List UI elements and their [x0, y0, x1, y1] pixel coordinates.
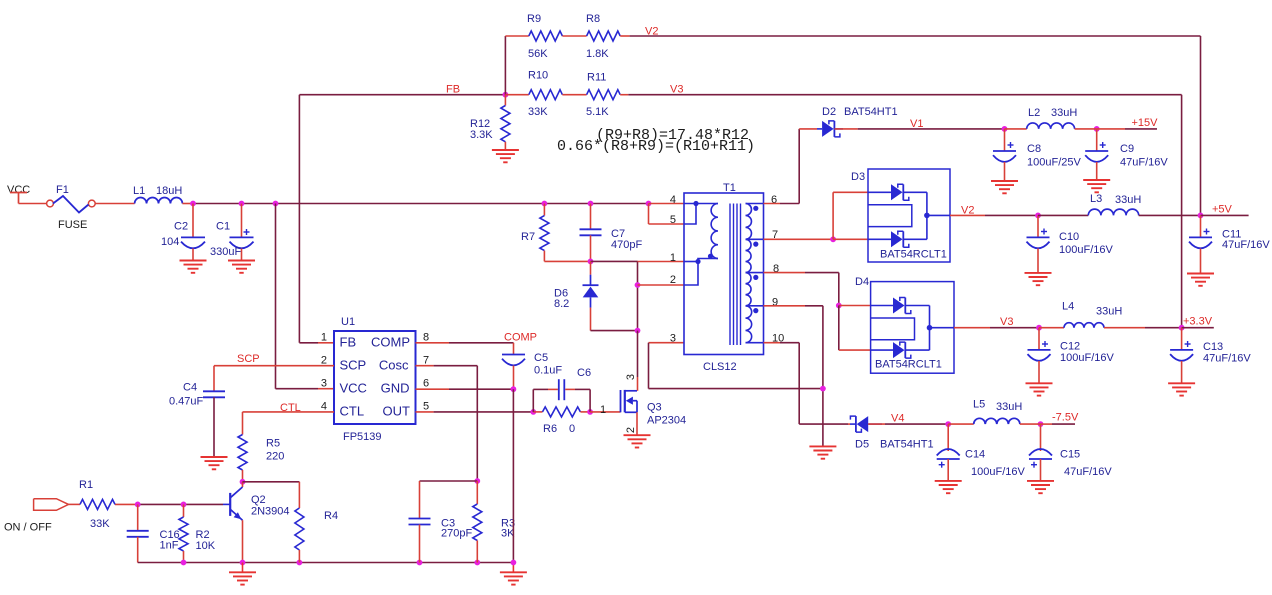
wire T1 pin10 to D5	[764, 342, 781, 344]
svg-text:2: 2	[321, 355, 327, 367]
wire R10 to R11	[562, 94, 586, 96]
wire C14 to L5	[948, 423, 974, 425]
svg-text:Q2: Q2	[251, 494, 266, 506]
svg-text:FUSE: FUSE	[58, 219, 87, 231]
svg-text:F1: F1	[56, 184, 69, 196]
svg-text:R10: R10	[528, 70, 548, 82]
wire D5 to V4 rail	[868, 423, 885, 425]
svg-text:18uH: 18uH	[156, 185, 182, 197]
ground C9	[1083, 179, 1110, 181]
svg-text:R8: R8	[586, 13, 600, 25]
capacitor C3 270pF	[419, 481, 421, 519]
svg-text:COMP: COMP	[371, 335, 410, 350]
svg-text:3.3K: 3.3K	[470, 129, 493, 141]
svg-text:6: 6	[423, 377, 429, 389]
ground R12	[492, 149, 519, 151]
svg-text:47uF/16V: 47uF/16V	[1222, 239, 1270, 251]
svg-text:Q3: Q3	[647, 402, 662, 414]
svg-text:33uH: 33uH	[1115, 194, 1141, 206]
svg-text:47uF/16V: 47uF/16V	[1203, 353, 1251, 365]
wire fuse to L1	[95, 203, 134, 205]
svg-text:270pF: 270pF	[441, 528, 472, 540]
junction C12	[1036, 325, 1042, 331]
svg-text:D5: D5	[855, 439, 869, 451]
svg-text:FB: FB	[340, 335, 357, 350]
ground C11	[1187, 273, 1214, 275]
svg-text:C4: C4	[183, 382, 197, 394]
svg-text:47uF/16V: 47uF/16V	[1064, 466, 1112, 478]
junction C2	[190, 201, 196, 207]
svg-text:33K: 33K	[90, 518, 110, 530]
resistor R10 33K	[529, 90, 563, 100]
wire C12 to L4	[1039, 327, 1064, 329]
svg-text:BAT54HT1: BAT54HT1	[844, 106, 898, 118]
ground C14	[935, 480, 962, 482]
svg-text:BAT54HT1: BAT54HT1	[880, 439, 934, 451]
resistor R8 1.8K	[587, 31, 621, 41]
wire snubber node to T1 pin1 column	[591, 260, 638, 262]
junction R3 bottom	[474, 560, 480, 566]
wire bottom-left ground rail	[138, 562, 514, 564]
svg-text:D4: D4	[855, 276, 869, 288]
wire GND vertical to ground	[512, 389, 514, 562]
svg-text:220: 220	[266, 451, 284, 463]
svg-text:1nF: 1nF	[160, 540, 179, 552]
svg-text:2N3904: 2N3904	[251, 506, 290, 518]
svg-text:C1: C1	[216, 221, 230, 233]
capacitor C13 47uF/16V	[1181, 328, 1183, 350]
svg-text:R9: R9	[527, 13, 541, 25]
svg-text:D2: D2	[822, 106, 836, 118]
svg-text:L2: L2	[1028, 107, 1040, 119]
wire T1 pin3 to ground run	[649, 342, 685, 344]
svg-text:R5: R5	[266, 438, 280, 450]
junction rail end	[511, 560, 517, 566]
svg-text:5: 5	[423, 400, 429, 412]
wire connector to R1	[69, 503, 81, 505]
junction R7 on VCC rail	[542, 201, 548, 207]
svg-text:2: 2	[670, 274, 676, 286]
transistor Q2 2N3904	[229, 493, 231, 516]
junction +3.3V	[1179, 325, 1185, 331]
wire C10 to L3	[1038, 214, 1088, 216]
junction snubber node	[588, 259, 594, 265]
svg-text:V3: V3	[1000, 316, 1013, 328]
ground C8	[991, 180, 1018, 182]
svg-text:33uH: 33uH	[996, 401, 1022, 413]
ground C13	[1168, 382, 1195, 384]
svg-text:V1: V1	[910, 118, 923, 130]
wire U1 OUT pin5	[416, 411, 434, 413]
ground Q3	[624, 434, 651, 436]
svg-text:C6: C6	[577, 367, 591, 379]
junction C10	[1035, 213, 1041, 219]
junction +5V	[1198, 213, 1204, 219]
svg-text:10K: 10K	[196, 540, 216, 552]
svg-text:V4: V4	[891, 413, 904, 425]
capacitor C4 0.47uF	[213, 366, 215, 392]
inductor L5 33uH	[974, 418, 1020, 424]
svg-text:0.66*(R8+R9)=(R10+R11): 0.66*(R8+R9)=(R10+R11)	[557, 138, 755, 155]
svg-text:Cosc: Cosc	[379, 358, 409, 373]
svg-text:BAT54RCLT1: BAT54RCLT1	[880, 249, 947, 261]
wire D3 out +5V rail	[950, 214, 985, 216]
svg-text:C12: C12	[1060, 341, 1080, 353]
junction pin9 ground node	[820, 386, 826, 392]
ground C2	[180, 260, 207, 262]
svg-text:R11: R11	[587, 72, 606, 84]
junction C9	[1094, 126, 1100, 132]
svg-text:+5V: +5V	[1212, 204, 1233, 216]
resistor R1 33K	[80, 499, 115, 509]
svg-text:3: 3	[321, 377, 327, 389]
junction D3 input	[830, 236, 836, 242]
svg-text:CTL: CTL	[340, 404, 365, 419]
wire V2 feedback run	[620, 35, 629, 37]
svg-text:SCP: SCP	[340, 358, 367, 373]
svg-text:100uF/16V: 100uF/16V	[1059, 244, 1113, 256]
T1 secondary winding	[746, 204, 752, 240]
resistor R11 5.1K	[587, 90, 621, 100]
svg-text:0: 0	[569, 423, 575, 435]
resistor R6 0	[533, 411, 542, 413]
wire Cosc node to C3	[420, 480, 478, 482]
junction T1 pin4	[646, 201, 652, 207]
transformer T1 CLS12	[684, 193, 764, 355]
capacitor C10 100uF/16V	[1037, 215, 1039, 237]
wire D2 to V1 rail	[835, 128, 858, 130]
resistor R3 3K	[476, 481, 478, 504]
transistor Q3 AP2304 mosfet	[620, 390, 622, 412]
junction VCC to U1 pin3	[273, 201, 279, 207]
svg-text:104: 104	[161, 236, 179, 248]
capacitor C7 470pF	[590, 204, 592, 230]
svg-text:C5: C5	[534, 352, 548, 364]
connector ON/OFF	[34, 499, 69, 511]
svg-text:3: 3	[625, 374, 637, 380]
svg-text:5: 5	[670, 214, 676, 226]
svg-text:33K: 33K	[528, 106, 548, 118]
wire VCC down to U1 VCC pin	[275, 204, 277, 389]
junction R2	[181, 502, 187, 508]
svg-text:D3: D3	[851, 171, 865, 183]
svg-text:330uF: 330uF	[210, 246, 241, 258]
svg-text:100uF/25V: 100uF/25V	[1027, 157, 1081, 169]
svg-text:V2: V2	[961, 205, 974, 217]
svg-text:470pF: 470pF	[611, 239, 642, 251]
svg-text:V2: V2	[645, 26, 658, 38]
wire +3.3V rail right	[1182, 327, 1214, 329]
wire T1 pin8 to D4	[764, 272, 806, 274]
wire Q3 drain vertical	[637, 331, 639, 377]
wire FB node up to R9 row	[504, 36, 506, 95]
T1 primary winding	[684, 203, 718, 205]
capacitor C5 0.1uF	[513, 343, 515, 355]
svg-text:L1: L1	[133, 185, 145, 197]
svg-text:C2: C2	[174, 221, 188, 233]
resistor R7	[543, 204, 545, 216]
svg-text:5.1K: 5.1K	[586, 106, 609, 118]
inductor L3 33uH	[1088, 209, 1138, 215]
wire T1 pin9 to ground	[764, 305, 806, 307]
wire D6 to Q3 drain node	[591, 330, 638, 332]
svg-text:8.2: 8.2	[554, 298, 569, 310]
wire to T1 pin2	[638, 284, 685, 286]
svg-text:1: 1	[600, 404, 606, 416]
wire Q3 source to ground	[636, 412, 638, 435]
svg-text:100uF/16V: 100uF/16V	[1060, 352, 1114, 364]
resistor R2 10K	[183, 504, 185, 517]
diode pack D3 BAT54RCLT1	[868, 169, 950, 262]
svg-text:33uH: 33uH	[1051, 107, 1077, 119]
junction C8	[1002, 126, 1008, 132]
wire V3 feedback run	[620, 94, 628, 96]
inductor L1 18uH	[135, 198, 183, 204]
svg-text:AP2304: AP2304	[647, 415, 686, 427]
wire +5V rail right	[1201, 214, 1249, 216]
svg-text:OUT: OUT	[383, 404, 411, 419]
junction R6 right	[587, 409, 593, 415]
svg-text:C8: C8	[1027, 143, 1041, 155]
svg-text:8: 8	[423, 332, 429, 344]
junction C3 bottom	[417, 560, 423, 566]
junction GND C5 node	[511, 386, 517, 392]
diode D2 BAT54HT1	[817, 128, 822, 130]
junction C16	[135, 502, 141, 508]
wire to T1 pin1	[638, 261, 685, 263]
wire T1 pin7 to D3	[764, 238, 834, 240]
ground C4	[201, 456, 228, 458]
ground C12	[1026, 382, 1053, 384]
junction C7 on VCC rail	[588, 201, 594, 207]
ground U1 GND	[500, 571, 527, 573]
svg-text:C13: C13	[1203, 341, 1223, 353]
svg-text:4: 4	[670, 194, 676, 206]
capacitor C1 330uF	[241, 204, 243, 238]
wire to T1 pin4	[649, 203, 685, 205]
capacitor C15 47uF/16V	[1040, 424, 1042, 451]
resistor R5 220	[242, 412, 244, 435]
svg-text:1: 1	[321, 332, 327, 344]
junction Q3 drain node	[635, 328, 641, 334]
wire L3 to +5V corner	[1139, 214, 1201, 216]
svg-text:C14: C14	[965, 449, 985, 461]
junction ground stem	[240, 560, 246, 566]
T1 core	[729, 204, 731, 346]
svg-text:R1: R1	[79, 479, 93, 491]
junction C1	[239, 201, 245, 207]
svg-text:0.47uF: 0.47uF	[169, 396, 204, 408]
resistor R12 3.3K	[504, 95, 506, 106]
junction D4 input	[836, 303, 842, 309]
svg-text:FP5139: FP5139	[343, 431, 382, 443]
inductor L2 33uH	[1027, 123, 1075, 129]
junction C14	[945, 421, 951, 427]
ground T1 secondary	[809, 445, 836, 447]
ground C1	[228, 260, 255, 262]
svg-text:0.1uF: 0.1uF	[534, 365, 562, 377]
svg-text:V3: V3	[670, 84, 683, 96]
resistor R4	[243, 481, 300, 483]
wire R9 to R8	[562, 35, 586, 37]
capacitor C14 100uF/16V	[947, 424, 949, 451]
svg-text:R7: R7	[521, 231, 535, 243]
wire L2 to +15V	[1075, 128, 1097, 130]
wire T1 pin6 to D2	[764, 203, 781, 205]
wire R6 to Q3 gate	[590, 411, 620, 413]
wire L1 to node	[182, 203, 193, 205]
svg-text:7: 7	[423, 355, 429, 367]
svg-text:47uF/16V: 47uF/16V	[1120, 157, 1168, 169]
svg-text:BAT54RCLT1: BAT54RCLT1	[875, 359, 942, 371]
ground C15	[1027, 480, 1054, 482]
diode pack D4 BAT54RCLT1	[871, 282, 954, 374]
wire to T1 pin5	[648, 204, 650, 225]
svg-text:U1: U1	[341, 316, 355, 328]
svg-text:3: 3	[670, 333, 676, 345]
junction C15	[1038, 421, 1044, 427]
svg-text:R4: R4	[324, 510, 338, 522]
svg-text:C15: C15	[1060, 449, 1080, 461]
svg-text:SCP: SCP	[237, 353, 260, 365]
resistor R9 56K	[529, 31, 563, 41]
wire V2 vertical down to +5V rail	[1200, 36, 1202, 215]
wire CTL U1 pin4 to R5	[243, 411, 335, 413]
junction Q2 collector node	[240, 479, 246, 485]
svg-text:L3: L3	[1090, 193, 1102, 205]
ic U1 FP5139	[334, 331, 416, 424]
svg-text:VCC: VCC	[340, 381, 367, 396]
svg-text:2: 2	[625, 427, 637, 433]
svg-text:T1: T1	[723, 182, 736, 194]
svg-text:100uF/16V: 100uF/16V	[971, 466, 1025, 478]
capacitor C9 47uF/16V	[1096, 129, 1098, 151]
wire U1 GND pin6	[416, 388, 450, 390]
svg-text:1.8K: 1.8K	[586, 48, 609, 60]
svg-text:L5: L5	[973, 399, 985, 411]
capacitor C6 parallel loop	[532, 389, 534, 412]
svg-text:CLS12: CLS12	[703, 361, 737, 373]
diode D5 BAT54HT1	[850, 423, 855, 425]
capacitor C12 100uF/16V	[1038, 328, 1040, 350]
capacitor C2 104	[192, 204, 194, 238]
svg-text:+15V: +15V	[1132, 117, 1159, 129]
svg-text:L4: L4	[1062, 301, 1074, 313]
junction FB R10 R12	[503, 92, 509, 98]
svg-text:56K: 56K	[528, 48, 548, 60]
wire L5 to -7.5V	[1020, 423, 1041, 425]
svg-text:4: 4	[321, 400, 327, 412]
wire FB net vertical to U1 pin1	[298, 95, 300, 343]
diode D6 8.2 zener	[590, 261, 592, 274]
inductor L4 33uH	[1064, 323, 1104, 328]
svg-text:GND: GND	[381, 381, 410, 396]
svg-text:C9: C9	[1120, 143, 1134, 155]
wire U1 COMP pin8	[416, 342, 450, 344]
wire T1 primary bottom column	[637, 262, 639, 331]
junction Cosc node	[474, 478, 480, 484]
capacitor C11 47uF/16V	[1200, 215, 1202, 237]
wire VCC rail	[193, 203, 649, 205]
wire C8 to L2	[1005, 128, 1027, 130]
junction R6 left	[530, 409, 536, 415]
wire D4 out +3.3V rail	[954, 327, 990, 329]
svg-text:C10: C10	[1059, 231, 1079, 243]
svg-text:ON / OFF: ON / OFF	[4, 522, 52, 534]
svg-text:+3.3V: +3.3V	[1183, 316, 1213, 328]
svg-text:-7.5V: -7.5V	[1052, 412, 1079, 424]
wire L4 to +3.3V corner	[1104, 327, 1145, 329]
svg-text:COMP: COMP	[504, 332, 537, 344]
fuse F1	[47, 200, 54, 207]
junction R4 bottom	[297, 560, 303, 566]
ground C10	[1025, 272, 1052, 274]
svg-text:33uH: 33uH	[1096, 306, 1122, 318]
wire FB node to R10	[505, 94, 528, 96]
ground bottom rail	[242, 563, 244, 573]
wire V3 vertical down to +3.3V rail	[1181, 95, 1183, 328]
wire R7 bottom to snubber node	[544, 260, 590, 262]
wire VCC to fuse	[19, 203, 47, 205]
wire U1 Cosc pin7	[416, 365, 434, 367]
svg-text:R6: R6	[543, 423, 557, 435]
capacitor C16 1nF	[137, 504, 139, 530]
svg-text:FB: FB	[446, 84, 460, 96]
wire FB net horizontal	[299, 94, 505, 96]
capacitor C8 100uF/25V	[1004, 129, 1006, 151]
junction R2 bottom	[181, 560, 187, 566]
wire SCP U1 pin2 to C4	[214, 365, 334, 367]
junction T1 pin2	[635, 282, 641, 288]
svg-text:1: 1	[670, 252, 676, 264]
wire Q2 base	[115, 503, 138, 505]
